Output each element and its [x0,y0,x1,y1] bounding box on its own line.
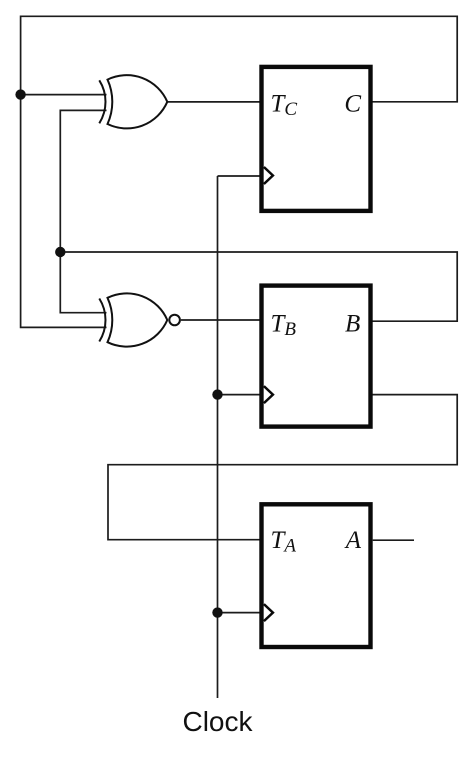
xor gate U1 outer input arc [99,80,105,123]
wire C feedback: C output right, up, across top, down left side to XNOR lower input [21,16,458,327]
wire XOR U1 output to T_C input [167,101,262,103]
flip-flop U4 (T_B) box [262,286,371,427]
clock edge triangle on T_B [264,386,273,403]
wire clock stub to T_B [218,394,262,396]
svg-text:B: B [345,311,360,338]
xor gate U1 body [108,75,168,128]
clock edge triangle on T_C [264,167,273,184]
wire XOR U1 top input tap from node C [21,94,107,96]
flip-flop U5 (T_A) box [262,504,371,647]
flip-flop U3 (T_C) box [262,67,371,211]
junction node clock/T_B [212,389,222,399]
junction node clock/T_A [212,607,222,617]
wire XNOR U2 upper input from node B [60,252,106,313]
svg-text:Clock: Clock [182,706,253,737]
xnor gate U2 outer input arc [99,299,105,342]
xnor gate U2 inversion bubble [169,315,180,326]
xnor gate U2 body [108,293,168,346]
wire clock stub to T_A [218,612,262,614]
wire B feedback: B output right, up, across at y=252, down to XOR U1 lower input [60,110,457,321]
clock edge triangle on T_A [264,604,273,621]
junction node B tap [55,247,65,257]
junction node C tap [15,89,25,99]
wire A output stub [373,539,414,541]
svg-text:C: C [344,91,361,118]
svg-text:A: A [344,527,362,554]
wire clock stub to T_C [218,175,262,177]
wire XNOR U2 output to T_B input [181,319,262,321]
wire clock vertical line [217,176,219,698]
wire T_B lower output to T_A input (right, down, across, down, right) [108,395,457,540]
